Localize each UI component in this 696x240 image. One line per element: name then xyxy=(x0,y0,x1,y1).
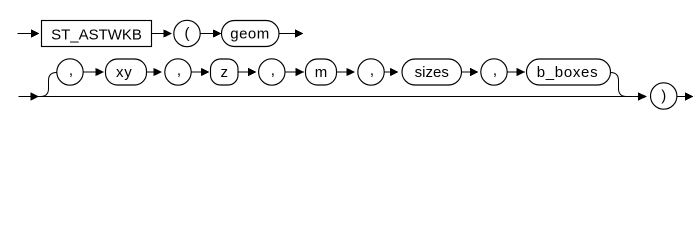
svg-text:m: m xyxy=(315,64,328,81)
wire loop up-curve left xyxy=(41,73,57,97)
terminal , #1 xyxy=(57,59,83,85)
arrowhead into z xyxy=(201,68,210,76)
arrowhead into comma5 xyxy=(470,68,479,76)
terminal b_boxes xyxy=(527,59,611,85)
wire after ST_ASTWKB xyxy=(152,33,165,35)
wire loop down-curve right xyxy=(611,73,627,97)
terminal , #5 xyxy=(481,59,507,85)
svg-text:): ) xyxy=(661,87,666,104)
terminal ) xyxy=(651,83,677,109)
wire row2 main line xyxy=(19,96,640,98)
wire after comma2 xyxy=(192,71,202,73)
terminal , #2 xyxy=(165,59,191,85)
svg-text:,: , xyxy=(177,62,181,79)
svg-text:geom: geom xyxy=(230,26,270,43)
svg-text:,: , xyxy=(493,62,497,79)
arrowhead row2 start xyxy=(31,92,40,100)
wire after xy xyxy=(147,71,155,73)
arrowhead into xy xyxy=(95,68,104,76)
arrowhead into geom xyxy=(213,29,222,37)
svg-text:sizes: sizes xyxy=(415,64,449,81)
svg-text:xy: xy xyxy=(116,64,133,81)
arrowhead into b_boxes xyxy=(517,68,526,76)
arrowhead into sizes xyxy=(390,68,399,76)
terminal m xyxy=(306,59,337,85)
arrowhead row1 end xyxy=(295,29,304,37)
wire after sizes xyxy=(462,71,471,73)
wire after m xyxy=(337,71,348,73)
wire after comma3 xyxy=(285,71,296,73)
arrowhead into comma2 xyxy=(153,68,162,76)
arrowhead into ) xyxy=(638,92,647,100)
svg-text:,: , xyxy=(370,62,374,79)
terminal ( xyxy=(174,20,200,46)
arrowhead into ( xyxy=(163,29,172,37)
arrowhead into m xyxy=(296,68,305,76)
wire after ( xyxy=(201,33,214,35)
terminal , #4 xyxy=(358,59,384,85)
svg-text:ST_ASTWKB: ST_ASTWKB xyxy=(51,26,142,43)
wire after comma1 xyxy=(84,71,97,73)
terminal , #3 xyxy=(259,59,285,85)
terminal sizes xyxy=(402,59,462,85)
wire after comma4 xyxy=(384,71,390,73)
arrowhead into comma4 xyxy=(346,68,355,76)
svg-text:(: ( xyxy=(185,25,190,42)
box ST_ASTWKB xyxy=(42,21,152,47)
svg-text:b_boxes: b_boxes xyxy=(537,64,599,81)
wire after z xyxy=(238,71,249,73)
arrowhead into ST_ASTWKB xyxy=(31,29,40,37)
svg-text:,: , xyxy=(271,62,275,79)
arrowhead row2 end xyxy=(685,92,694,100)
wire after comma5 xyxy=(508,71,518,73)
terminal xy xyxy=(106,59,147,85)
wire row2 end xyxy=(677,96,686,98)
wire row1 start xyxy=(18,33,33,35)
wire after geom xyxy=(279,33,296,35)
terminal geom xyxy=(222,21,280,47)
svg-text:z: z xyxy=(221,64,229,81)
terminal z xyxy=(211,59,239,85)
svg-text:,: , xyxy=(69,62,73,79)
arrowhead into comma3 xyxy=(248,68,257,76)
